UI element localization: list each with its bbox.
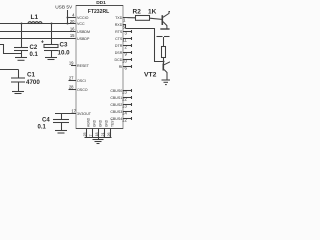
pin labels inside left bbox=[77, 16, 92, 116]
svg-text:L1: L1 bbox=[31, 14, 39, 21]
pin numbers left side bbox=[69, 12, 77, 113]
pin numbers right side bbox=[122, 17, 127, 122]
svg-text:GND: GND bbox=[105, 119, 109, 127]
svg-text:CBUS0: CBUS0 bbox=[110, 89, 122, 93]
transistor VT2 collector bbox=[164, 62, 170, 65]
capacitor C2 bbox=[21, 24, 23, 48]
wire cap to resistor bbox=[163, 37, 165, 47]
resistor body vertical bbox=[162, 47, 166, 58]
svg-text:25: 25 bbox=[83, 133, 87, 137]
svg-text:RI: RI bbox=[119, 65, 123, 69]
chip top edge bbox=[76, 5, 123, 7]
pin 1 TXD wire to R2 bbox=[123, 17, 136, 19]
wire VBUS in bbox=[0, 23, 28, 25]
svg-text:0.1: 0.1 bbox=[30, 52, 39, 58]
svg-text:28: 28 bbox=[69, 85, 74, 90]
svg-text:USBDP: USBDP bbox=[77, 37, 90, 41]
wire L1 to pin 20 VCC bbox=[42, 23, 76, 25]
svg-text:13: 13 bbox=[122, 104, 127, 109]
svg-text:23: 23 bbox=[122, 90, 127, 95]
svg-text:DD1: DD1 bbox=[96, 0, 106, 6]
junction dots bbox=[21, 17, 165, 63]
svg-text:10.0: 10.0 bbox=[58, 50, 71, 57]
svg-text:DCD: DCD bbox=[115, 58, 123, 62]
bottom pin labels inside rotated bbox=[87, 117, 115, 127]
svg-text:22: 22 bbox=[122, 97, 127, 102]
svg-text:21: 21 bbox=[101, 133, 105, 137]
pin 19 RESET stub bbox=[71, 65, 76, 67]
svg-text:VT2: VT2 bbox=[144, 72, 157, 79]
svg-text:TXD: TXD bbox=[115, 16, 123, 20]
capacitor plate at T1 emitter bbox=[160, 28, 169, 30]
pin 27 OSCI stub bbox=[69, 80, 77, 82]
wire +5V USB net bbox=[67, 10, 69, 24]
svg-text:CBUS2: CBUS2 bbox=[110, 103, 122, 107]
transistor VT2 emitter bbox=[164, 70, 167, 80]
wire USBDM to pin 16 bbox=[0, 31, 76, 33]
pin 5 RXD stub and bend bbox=[123, 25, 126, 29]
svg-text:17: 17 bbox=[71, 108, 76, 113]
svg-text:3V3OUT: 3V3OUT bbox=[77, 112, 92, 116]
svg-text:USBDM: USBDM bbox=[77, 30, 90, 34]
pin labels inside right bbox=[110, 16, 123, 121]
svg-text:RESET: RESET bbox=[77, 64, 90, 68]
capacitor C4 bbox=[61, 114, 63, 120]
transistor T1 base bar bbox=[161, 15, 163, 25]
capacitor lower plate broken bbox=[157, 36, 163, 38]
resistor R2 body bbox=[136, 16, 150, 21]
ground under C4 bbox=[55, 130, 67, 132]
svg-text:R2: R2 bbox=[133, 9, 142, 16]
svg-text:11: 11 bbox=[122, 38, 127, 43]
svg-text:CBUS1: CBUS1 bbox=[110, 96, 122, 100]
chip DD1 body bbox=[76, 6, 123, 129]
svg-text:0.1: 0.1 bbox=[38, 125, 47, 131]
svg-text:26: 26 bbox=[107, 133, 111, 137]
capacitor C1 bbox=[0, 69, 19, 71]
wire to pin 4 VCC bbox=[68, 17, 77, 19]
wire R2 to T1 base bbox=[150, 18, 162, 19]
bottom pin numbers rotated bbox=[83, 133, 111, 137]
wire pin 17 3V3OUT to C4 bbox=[55, 113, 76, 115]
wire ground stub from left edge bbox=[0, 45, 22, 54]
svg-text:12: 12 bbox=[122, 118, 127, 123]
wire RXD to VT2 bbox=[126, 29, 164, 62]
CBUS pin stubs 23 22 13 14 12 bbox=[123, 89, 132, 120]
svg-text:AGND: AGND bbox=[87, 117, 91, 127]
svg-text:GND: GND bbox=[93, 119, 97, 127]
svg-text:FT232RL: FT232RL bbox=[88, 9, 110, 15]
svg-text:10: 10 bbox=[122, 59, 127, 64]
svg-text:1K: 1K bbox=[148, 9, 157, 16]
svg-text:14: 14 bbox=[122, 111, 127, 116]
svg-text:15: 15 bbox=[70, 33, 75, 38]
ground under C3 bbox=[45, 57, 57, 59]
svg-text:DSR: DSR bbox=[115, 51, 123, 55]
svg-text:USB 5V: USB 5V bbox=[55, 5, 73, 11]
svg-text:19: 19 bbox=[69, 61, 74, 66]
svg-text:27: 27 bbox=[69, 76, 74, 81]
svg-text:CTS: CTS bbox=[115, 37, 123, 41]
wire resistor to node bbox=[163, 58, 165, 67]
transistor T1 collector bbox=[163, 12, 170, 18]
svg-text:C2: C2 bbox=[30, 45, 38, 51]
svg-text:C3: C3 bbox=[60, 41, 68, 48]
transistor VT2 base bar bbox=[162, 64, 164, 71]
ground at VT2 emitter bbox=[162, 79, 171, 81]
svg-text:DTR: DTR bbox=[115, 44, 123, 48]
wire USBDP to pin 15 bbox=[0, 38, 76, 40]
svg-text:RTS: RTS bbox=[115, 30, 123, 34]
svg-text:4700: 4700 bbox=[26, 79, 40, 86]
ground symbol bottom bbox=[98, 138, 100, 140]
ground under C1 bbox=[12, 91, 24, 93]
svg-text:18: 18 bbox=[95, 133, 99, 137]
svg-text:VCC: VCC bbox=[77, 22, 85, 26]
svg-text:GND: GND bbox=[99, 119, 103, 127]
ground under C2 bbox=[15, 57, 27, 59]
ground rail bottom bbox=[85, 137, 112, 139]
svg-text:16: 16 bbox=[70, 26, 75, 31]
svg-text:RXD: RXD bbox=[115, 23, 123, 27]
svg-text:OSCI: OSCI bbox=[77, 79, 86, 83]
inductor L1 bbox=[28, 23, 42, 25]
svg-text:C4: C4 bbox=[42, 117, 50, 123]
svg-text:20: 20 bbox=[70, 19, 75, 24]
svg-text:C1: C1 bbox=[27, 72, 35, 79]
svg-text:VCCIO: VCCIO bbox=[77, 16, 89, 20]
svg-text:CBUS3: CBUS3 bbox=[110, 110, 122, 114]
chip bottom edge bbox=[76, 128, 123, 130]
svg-text:TEST: TEST bbox=[111, 119, 115, 127]
transistor T1 emitter bbox=[163, 22, 167, 29]
svg-text:OSCO: OSCO bbox=[77, 88, 88, 92]
wire node to VT2 base bbox=[163, 62, 165, 64]
svg-text:+: + bbox=[41, 40, 44, 46]
capacitor C3 (electrolytic) bbox=[51, 24, 53, 45]
bottom pin stubs 25 7 18 21 26 bbox=[86, 129, 88, 138]
right pin stubs rows 3 11 2 9 10 6 bbox=[123, 30, 132, 68]
pin 28 OSCO stub bbox=[69, 89, 77, 91]
svg-text:7: 7 bbox=[89, 135, 93, 137]
